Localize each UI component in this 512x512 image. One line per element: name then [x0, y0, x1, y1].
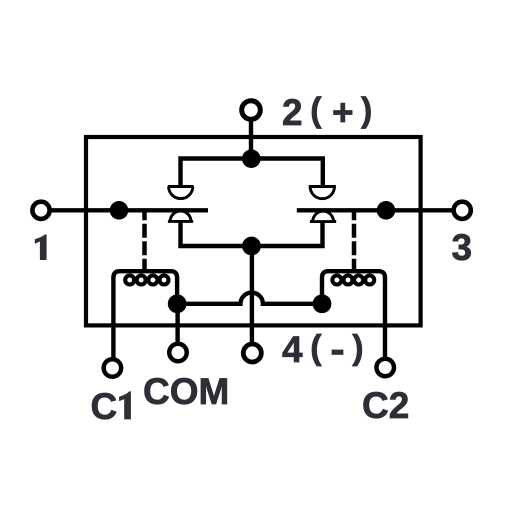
terminal 3 circle: [454, 202, 471, 219]
terminal 2 circle: [242, 101, 261, 120]
junction dot on upper rail: [242, 149, 261, 168]
junction dot on terminal 1 wire: [110, 201, 129, 220]
svg-text:C2: C2: [362, 385, 409, 426]
svg-text:4(): 4(): [282, 329, 364, 370]
wire: lower rail to terminal 4: [250, 246, 254, 344]
lower rail with stubs to fixed contacts: [181, 221, 323, 247]
wire: terminal 2 to upper rail: [249, 120, 253, 159]
fixed contact lower-right (arch): [310, 211, 336, 221]
coil L1 (left) body: [113, 271, 177, 358]
terminal 1 circle: [32, 202, 49, 219]
svg-text:2(+): 2(+): [282, 92, 372, 133]
terminal C1 circle: [104, 359, 122, 377]
terminal C2 circle: [376, 359, 394, 377]
junction dot coil L2 / rail: [313, 294, 332, 313]
wire: junction to COM terminal: [175, 304, 179, 344]
fixed contact upper-left (cup): [168, 187, 194, 199]
coil common rail with hop over terminal 4 wire: [177, 293, 322, 304]
fixed contact lower-left (arch): [168, 211, 193, 221]
svg-text:3: 3: [452, 227, 473, 268]
wire: terminal 1 to left movable contact bar: [51, 208, 209, 212]
junction dot coil L1 / COM: [168, 294, 187, 313]
svg-text:C: C: [91, 386, 118, 427]
coil L2 (right) body: [322, 271, 385, 358]
relay case outline: [86, 137, 421, 325]
terminal COM circle: [169, 344, 187, 362]
mechanical linkage left (dashed): [142, 211, 147, 271]
mechanical linkage right (dashed): [352, 211, 357, 271]
upper rail with stubs to fixed contacts: [181, 159, 323, 188]
wire: right movable contact bar to terminal 3: [297, 208, 453, 212]
fixed contact upper-right (cup): [309, 187, 336, 199]
junction dot on lower rail: [242, 237, 261, 256]
coil L2 loops: [332, 276, 374, 285]
junction dot on terminal 3 wire: [377, 201, 396, 220]
label 1: [35, 235, 47, 261]
svg-text:COM: COM: [143, 371, 229, 412]
coil L1 loops: [125, 276, 168, 285]
terminal 4 circle: [243, 344, 261, 362]
